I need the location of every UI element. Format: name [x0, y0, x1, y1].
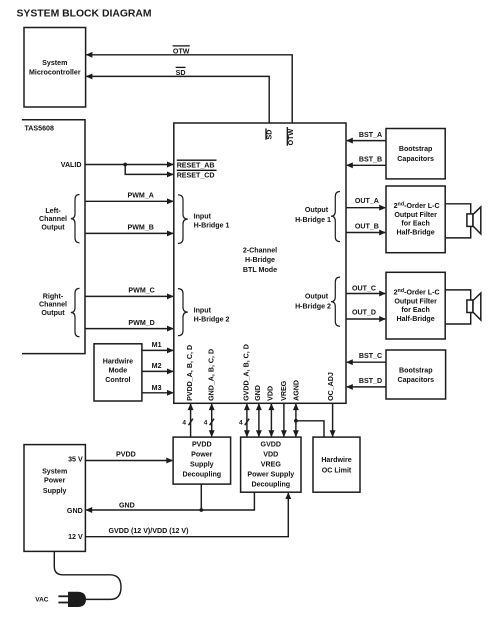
svg-text:PVDD: PVDD	[116, 451, 136, 459]
svg-text:VREG: VREG	[280, 380, 288, 401]
brace output H-Bridge 1	[331, 192, 340, 242]
svg-text:Input: Input	[194, 307, 212, 315]
svg-text:Supply: Supply	[43, 487, 67, 495]
wire pin GVDD_A,B,C,D bus (4)	[239, 403, 250, 437]
wire BST_B	[346, 156, 386, 169]
svg-text:4: 4	[182, 420, 186, 427]
wire pin OC_ADJ to Hardwire OC Limit	[330, 403, 336, 437]
svg-text:Channel: Channel	[39, 215, 67, 223]
svg-text:PVDD_A, B, C, D: PVDD_A, B, C, D	[186, 345, 194, 401]
svg-text:RESET_AB: RESET_AB	[177, 162, 215, 170]
svg-text:OTW: OTW	[173, 47, 190, 55]
label SD (overlined)	[176, 67, 186, 77]
brace Left-Channel Output	[71, 195, 80, 243]
node AGND junction	[294, 419, 298, 423]
wire pin GND_A,B,C,D bus (4)	[204, 403, 215, 437]
brace input H-Bridge 2	[178, 289, 188, 336]
svg-text:PVDD: PVDD	[192, 441, 212, 449]
wire OUT_A	[346, 197, 386, 210]
svg-text:H-Bridge 2: H-Bridge 2	[295, 303, 331, 311]
wire PWM_D	[85, 319, 174, 332]
wire PWM_B	[85, 224, 174, 237]
svg-text:OUT_D: OUT_D	[352, 308, 376, 316]
wire BST_D	[346, 377, 386, 390]
svg-text:4: 4	[204, 420, 208, 427]
pin label RESET_CD (overlined)	[177, 170, 217, 179]
wire PWM_C	[85, 287, 174, 300]
svg-text:Half-Bridge: Half-Bridge	[396, 315, 434, 323]
box TAS5608 (open-left outline)	[22, 120, 85, 354]
filter box 2nd-Order L-C Output Filter (H-Bridge 1)	[386, 186, 445, 253]
pin label OTW (rotated, overlined)	[287, 127, 295, 146]
filter box 2nd-Order L-C Output Filter (H-Bridge 2)	[386, 272, 445, 339]
svg-text:AGND: AGND	[292, 380, 300, 401]
svg-text:Supply: Supply	[190, 460, 214, 468]
svg-text:GVDD (12 V)/VDD (12 V): GVDD (12 V)/VDD (12 V)	[109, 527, 190, 535]
svg-text:PWM_D: PWM_D	[128, 319, 154, 327]
label Output H-Bridge 2	[295, 293, 331, 311]
svg-text:35 V: 35 V	[68, 456, 83, 464]
svg-text:PWM_B: PWM_B	[127, 224, 153, 232]
svg-text:GVDD: GVDD	[261, 441, 282, 449]
svg-text:GND: GND	[67, 507, 83, 515]
svg-text:VDD: VDD	[263, 451, 278, 459]
wire BST_C	[346, 352, 386, 365]
label OTW (overlined)	[173, 46, 190, 56]
wire pin VDD	[268, 403, 274, 437]
svg-text:GND_A, B, C, D: GND_A, B, C, D	[207, 349, 215, 401]
speaker 2	[467, 293, 481, 320]
wire PVDD decoupling to GND	[200, 484, 202, 510]
svg-text:Output: Output	[305, 206, 329, 214]
svg-text:BST_B: BST_B	[359, 156, 382, 164]
svg-text:H-Bridge 2: H-Bridge 2	[194, 316, 230, 324]
svg-text:PWM_C: PWM_C	[128, 287, 154, 295]
wire pin AGND	[293, 403, 299, 437]
svg-text:Power Supply: Power Supply	[247, 471, 294, 479]
pin label SD (rotated, overlined)	[266, 129, 274, 140]
node VALID junction	[123, 163, 127, 167]
svg-text:Output: Output	[305, 293, 329, 301]
box Hardwire Mode Control	[94, 344, 142, 401]
svg-text:VALID: VALID	[61, 161, 82, 169]
svg-text:BST_A: BST_A	[359, 131, 382, 139]
svg-text:Capacitors: Capacitors	[397, 376, 434, 384]
wire OUT_D	[346, 308, 386, 322]
wire pin GND	[256, 403, 262, 437]
box GVDD VDD VREG Power Supply Decoupling	[241, 437, 301, 492]
wire SD (IC top to microcontroller)	[86, 73, 270, 123]
svg-text:Hardwire: Hardwire	[103, 358, 133, 366]
svg-text:BST_C: BST_C	[359, 352, 382, 360]
op-amp U1 main IC box 2-Channel H-Bridge BTL Mode	[174, 123, 346, 403]
svg-text:Capacitors: Capacitors	[397, 155, 434, 163]
svg-text:Output: Output	[41, 309, 65, 317]
svg-text:RESET_CD: RESET_CD	[177, 172, 215, 180]
svg-text:H-Bridge 1: H-Bridge 1	[295, 216, 331, 224]
wire VALID to RESET_AB	[61, 161, 174, 169]
svg-text:H-Bridge 1: H-Bridge 1	[194, 222, 230, 230]
label Input H-Bridge 2	[194, 307, 230, 324]
wire OTW (IC top to microcontroller)	[86, 52, 293, 123]
wire GVDD (12 V)/VDD (12 V)	[85, 492, 291, 537]
svg-text:OUT_B: OUT_B	[355, 222, 379, 230]
label Output H-Bridge 1	[295, 206, 331, 224]
AC plug	[58, 592, 86, 607]
label Right-Channel Output	[39, 292, 67, 317]
wire BST_A	[346, 131, 386, 144]
speaker 1	[467, 207, 481, 234]
svg-text:OUT_C: OUT_C	[352, 285, 376, 293]
svg-text:System: System	[42, 59, 67, 67]
svg-text:Output Filter: Output Filter	[394, 297, 437, 305]
svg-text:4: 4	[239, 420, 243, 427]
svg-text:12 V: 12 V	[68, 533, 83, 541]
wire VALID branch to RESET_CD	[125, 165, 174, 178]
svg-text:GVDD_A, B, C, D: GVDD_A, B, C, D	[242, 344, 250, 401]
pin label RESET_AB (overlined)	[177, 160, 217, 169]
wire pin VREG	[281, 403, 287, 437]
svg-text:GND: GND	[254, 385, 262, 401]
svg-text:Left-: Left-	[45, 207, 61, 215]
capacitor bank Bootstrap Capacitors (A/B)	[386, 129, 445, 179]
svg-text:OTW: OTW	[287, 129, 295, 146]
svg-text:Power: Power	[44, 477, 66, 485]
svg-text:SYSTEM BLOCK DIAGRAM: SYSTEM BLOCK DIAGRAM	[17, 9, 152, 20]
svg-text:for Each: for Each	[401, 306, 429, 314]
svg-text:Decoupling: Decoupling	[182, 471, 221, 479]
label Input H-Bridge 1	[194, 212, 230, 229]
box System Power Supply	[24, 445, 85, 552]
svg-text:Bootstrap: Bootstrap	[399, 366, 433, 374]
svg-text:Power: Power	[191, 451, 213, 459]
svg-text:Microcontroller: Microcontroller	[29, 69, 81, 77]
svg-text:VAC: VAC	[35, 597, 49, 604]
svg-text:VREG: VREG	[261, 460, 282, 468]
svg-text:for Each: for Each	[401, 220, 429, 228]
svg-text:Right-: Right-	[43, 292, 64, 300]
svg-text:OUT_A: OUT_A	[355, 197, 379, 205]
wire pin PVDD_A,B,C,D bus (4)	[182, 403, 193, 437]
brace output H-Bridge 2	[331, 277, 340, 326]
svg-text:Input: Input	[194, 212, 212, 220]
wire OUT_C	[346, 285, 386, 297]
svg-text:PWM_A: PWM_A	[127, 191, 153, 199]
svg-text:System: System	[42, 467, 67, 475]
svg-text:M2: M2	[152, 362, 162, 370]
svg-text:Control: Control	[105, 376, 130, 384]
svg-text:OC_ADJ: OC_ADJ	[327, 372, 335, 401]
wire AGND to Hardwire OC Limit	[296, 421, 324, 437]
svg-text:M1: M1	[152, 341, 162, 349]
box System Microcontroller U2	[24, 28, 86, 108]
svg-text:2-Channel: 2-Channel	[243, 246, 277, 254]
wire GND return	[85, 492, 254, 513]
svg-text:BST_D: BST_D	[359, 377, 382, 385]
svg-text:SD: SD	[266, 130, 274, 140]
svg-text:Output Filter: Output Filter	[394, 211, 437, 219]
wire M2	[142, 362, 174, 374]
brace input H-Bridge 1	[178, 195, 188, 244]
wire PWM_A	[85, 191, 174, 204]
svg-text:Mode: Mode	[109, 367, 128, 375]
svg-text:SD: SD	[176, 69, 186, 77]
brace Right-Channel Output	[71, 288, 80, 336]
box PVDD Power Supply Decoupling	[173, 437, 231, 484]
svg-text:Output: Output	[41, 223, 65, 231]
label Left-Channel Output	[39, 207, 67, 232]
wire M1	[142, 341, 174, 353]
svg-text:Channel: Channel	[39, 301, 67, 309]
wire speaker 1 leads	[445, 204, 471, 238]
wire speaker 2 leads	[445, 290, 471, 324]
wire power cord	[54, 551, 121, 599]
svg-text:Hardwire: Hardwire	[321, 456, 351, 464]
svg-text:GND: GND	[119, 501, 135, 509]
node GND junction	[199, 508, 203, 512]
svg-text:TAS5608: TAS5608	[25, 125, 54, 133]
svg-text:M3: M3	[152, 384, 162, 392]
svg-text:Decoupling: Decoupling	[251, 481, 290, 489]
svg-text:BTL Mode: BTL Mode	[243, 266, 277, 274]
svg-text:H-Bridge: H-Bridge	[245, 256, 275, 264]
wire OUT_B	[346, 222, 386, 235]
svg-text:VDD: VDD	[267, 386, 275, 401]
svg-text:Half-Bridge: Half-Bridge	[396, 228, 434, 236]
wire M3	[142, 384, 174, 396]
box Hardwire OC Limit	[313, 437, 360, 492]
wire PVDD 35V supply	[85, 451, 173, 464]
svg-text:Bootstrap: Bootstrap	[399, 145, 433, 153]
capacitor bank Bootstrap Capacitors (C/D)	[386, 350, 446, 399]
svg-text:OC Limit: OC Limit	[322, 467, 352, 475]
